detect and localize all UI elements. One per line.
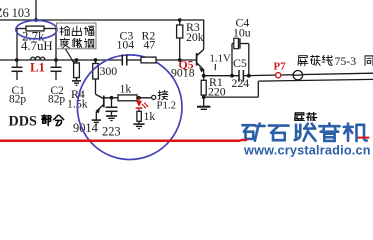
coax cable cross-section circle: [293, 71, 302, 80]
svg-text:2.7k: 2.7k: [22, 30, 45, 44]
wire: mid signal line (left of C3): [0, 59, 122, 61]
label: shielded line 75-3: [298, 56, 308, 66]
svg-text:9014: 9014: [73, 121, 98, 135]
svg-text:104: 104: [117, 38, 135, 52]
watermark white patch: [241, 121, 373, 168]
svg-text:300: 300: [100, 64, 118, 78]
svg-text:C5: C5: [233, 56, 247, 70]
resistor R1 220 (emitter): [203, 76, 205, 81]
svg-text:223: 223: [102, 125, 121, 139]
resistor 1k (vertical, below LED): [138, 109, 140, 112]
wire: right vertical of 2.7k branch: [55, 29, 57, 61]
svg-text:DDS: DDS: [9, 113, 37, 129]
annotation ellipse around 2.7k (blue): [16, 20, 57, 38]
annotation box: output amplitude trim: [57, 23, 97, 49]
svg-text:220: 220: [208, 85, 226, 99]
LED emission arrows: [142, 103, 148, 108]
wire: drop from DDS (top edge): [35, 0, 37, 20]
pointer tick under 1.1V: [214, 64, 216, 70]
resistor R4 1.5k (to ground): [75, 58, 79, 62]
resistor 300 (collector load): [94, 58, 98, 62]
svg-text:20k: 20k: [186, 30, 204, 44]
svg-text:1.1V: 1.1V: [210, 52, 231, 64]
svg-text:82p: 82p: [48, 94, 65, 106]
svg-text:www.crystalradio.cn: www.crystalradio.cn: [243, 144, 371, 158]
resistor R3 20k (bias from V+): [178, 18, 182, 22]
wire: mid signal line (C3 to R2): [127, 59, 141, 61]
wire: 9014 emitter to ground: [95, 111, 97, 119]
svg-text:Z6 103: Z6 103: [0, 6, 30, 20]
resistor 2.7k (parallel with L1): [17, 28, 26, 30]
red divider line: [0, 140, 241, 143]
wire: coax shield conductor: [258, 79, 373, 81]
svg-text:82p: 82p: [9, 94, 26, 106]
node: junction top rail / DDS drop: [34, 18, 38, 22]
wire: left vertical of 2.7k branch: [16, 29, 18, 61]
resistor 1k (horizontal, in base line): [118, 95, 137, 101]
watermark red tick right: [358, 137, 370, 139]
label: shield (cut by watermark): [295, 113, 305, 123]
node: L1 left / C1: [15, 58, 19, 62]
leader arrow from box to R4 node: [66, 49, 74, 62]
inductor L1 4.7uH coil: [31, 57, 46, 60]
svg-text:75-3: 75-3: [335, 54, 357, 68]
wire: ground link to cable shield: [204, 96, 259, 98]
svg-text:1k: 1k: [120, 82, 132, 96]
svg-text:L1: L1: [30, 61, 45, 75]
watermark logo (crystalradio): [242, 124, 264, 141]
ground below R4: [72, 80, 81, 82]
capacitor 223: [110, 96, 114, 100]
wire: top V+ rail: [0, 19, 204, 21]
LED (red) branch: [137, 96, 141, 100]
svg-text:P7: P7: [274, 60, 287, 72]
annotation circle (blue, around indicator stage): [77, 55, 182, 160]
svg-text:10u: 10u: [233, 26, 251, 40]
capacitor C1 82p: [16, 60, 18, 67]
wire: emitter node line: [204, 75, 239, 77]
node: Q5 emitter junction: [202, 74, 206, 78]
wire: base line to P1.2: [104, 97, 152, 99]
svg-text:P1.2: P1.2: [157, 100, 177, 112]
capacitor C4 10u (parallel electrolytic): [230, 74, 234, 78]
watermark red tick left: [241, 139, 248, 141]
wire: mid signal line (R2 to Q5 base): [156, 59, 197, 61]
ground below 223: [106, 115, 117, 117]
svg-text:9018: 9018: [171, 66, 195, 80]
svg-text:1k: 1k: [144, 109, 156, 123]
wire: coax center conductor: [249, 73, 373, 75]
svg-text:47: 47: [144, 38, 156, 52]
transistor Q5 9018: [196, 53, 198, 66]
capacitor C5 224 (output coupling): [238, 70, 240, 82]
node: L1 right / C2: [54, 58, 58, 62]
svg-text:224: 224: [232, 76, 250, 90]
ground below R1: [197, 106, 210, 108]
terminal: to P1.2: [152, 95, 156, 99]
ground below 1k: [133, 123, 144, 125]
resistor R2 47: [141, 57, 156, 63]
capacitor C3 104: [121, 55, 123, 66]
transistor Q2 9014: [96, 94, 104, 98]
terminal P7 (red): [276, 73, 281, 78]
capacitor C2 82p: [55, 60, 57, 67]
ground below 9014 emitter: [92, 119, 101, 121]
